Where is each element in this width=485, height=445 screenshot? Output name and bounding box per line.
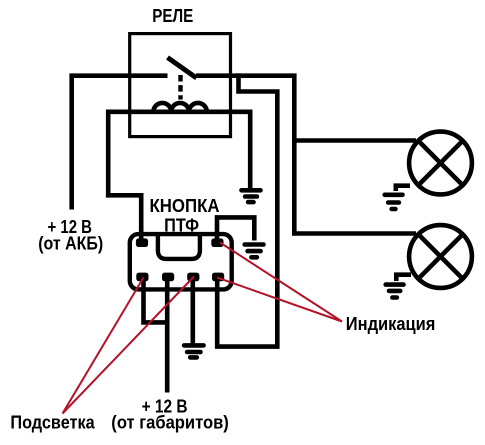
svg-text:ПТФ: ПТФ	[164, 215, 199, 235]
svg-text:(от АКБ): (от АКБ)	[38, 233, 103, 253]
svg-text:(от габаритов): (от габаритов)	[111, 413, 229, 433]
svg-text:КНОПКА: КНОПКА	[150, 196, 220, 216]
svg-text:Индикация: Индикация	[346, 314, 436, 334]
svg-text:РЕЛЕ: РЕЛЕ	[152, 6, 193, 26]
svg-text:Подсветка: Подсветка	[10, 413, 95, 433]
